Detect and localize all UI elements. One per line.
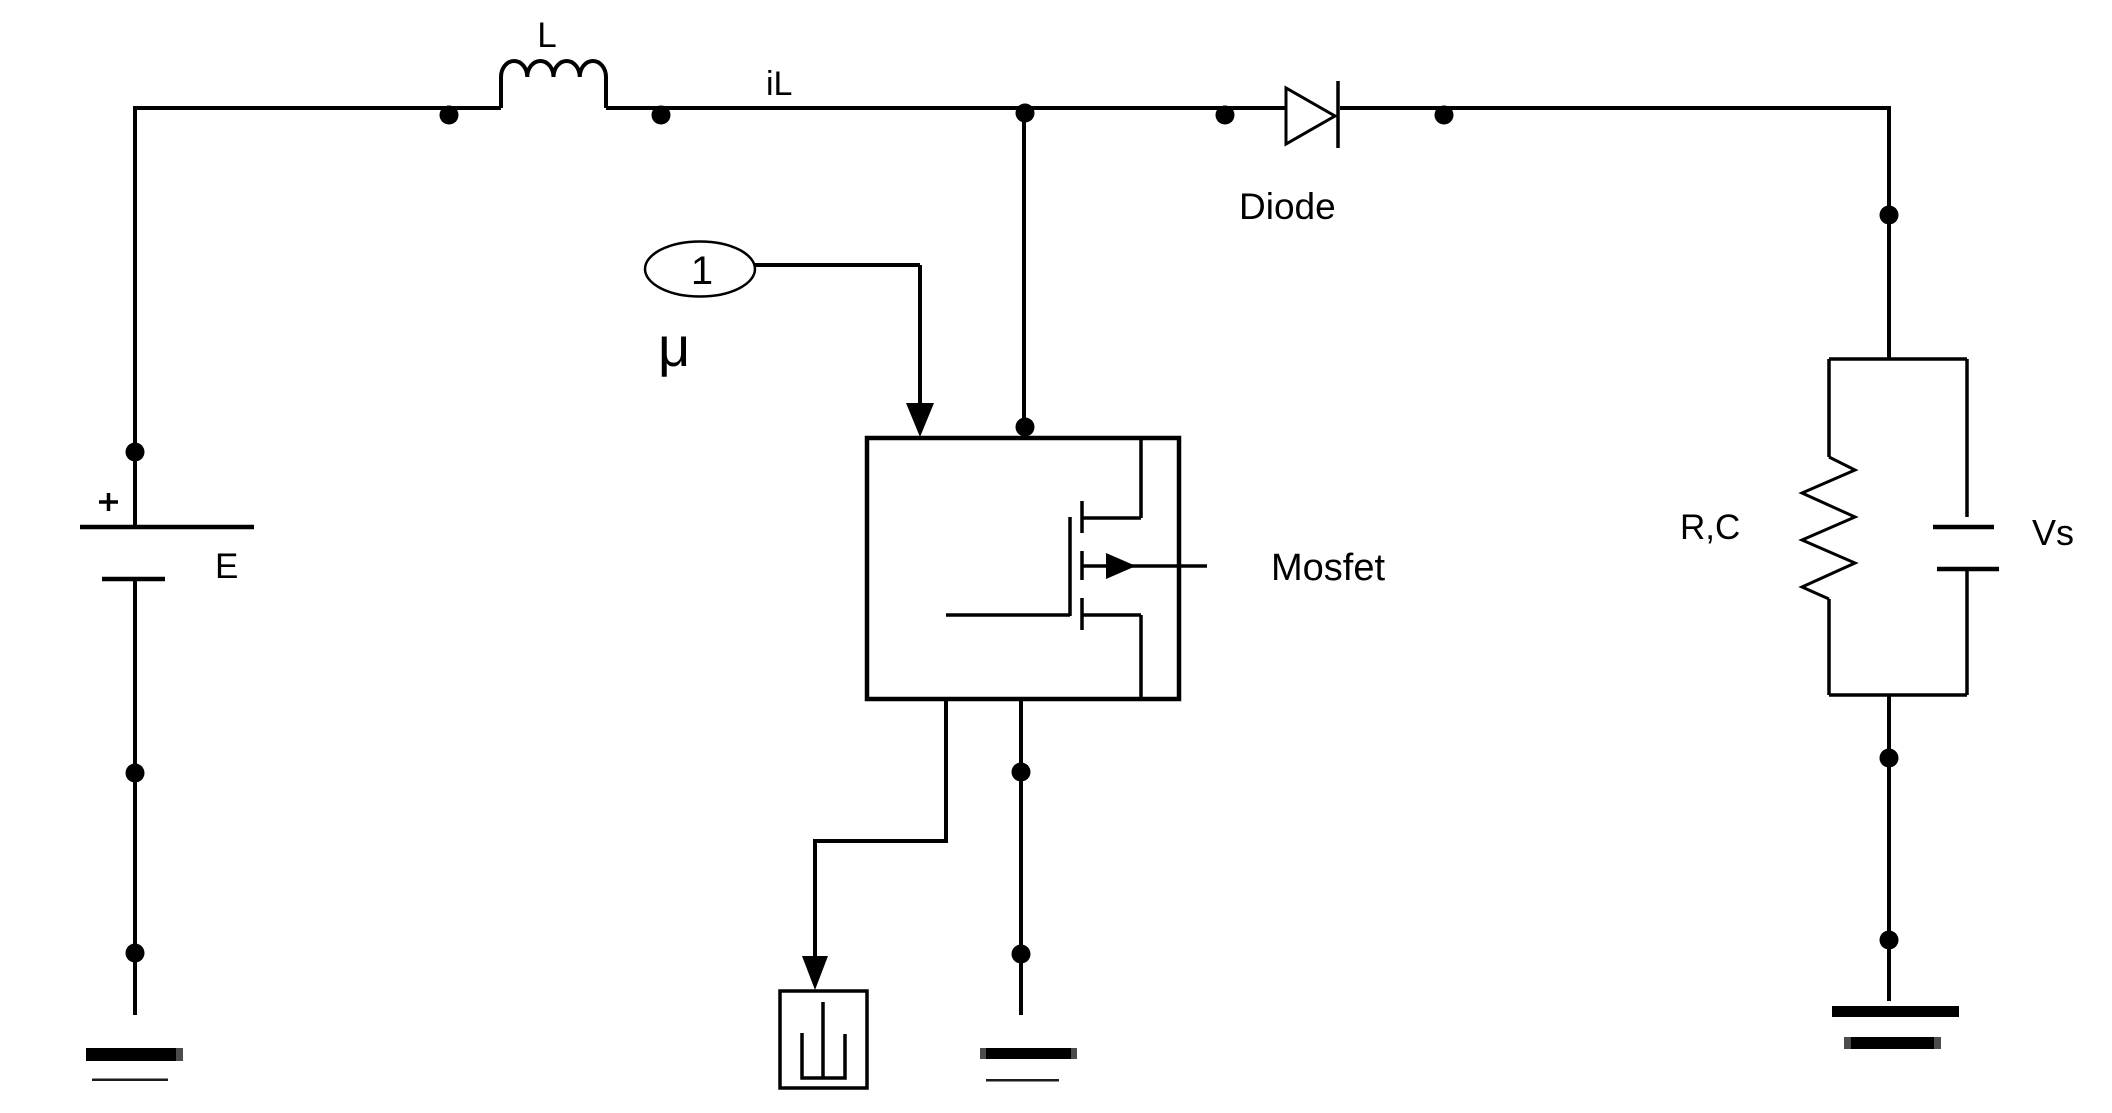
node dot mosfet bottom wire lower xyxy=(1012,945,1031,964)
mosfet gate plate xyxy=(1068,517,1072,616)
arrowhead into pulse block xyxy=(802,956,828,990)
mosfet channel dash top xyxy=(1080,501,1084,533)
node dot top wire 1 xyxy=(440,106,459,125)
capacitor C branch upper lead xyxy=(1965,359,1969,517)
node dot top wire 5 xyxy=(1435,106,1454,125)
ground middle bar xyxy=(980,1048,1077,1059)
wire gate vertical xyxy=(918,265,922,404)
mosfet body arrow xyxy=(1106,553,1136,579)
node dot left wire lower xyxy=(126,944,145,963)
node dot top wire 2 xyxy=(652,106,671,125)
ground left bar grey end xyxy=(176,1048,183,1061)
svg-text:iL: iL xyxy=(766,65,792,103)
capacitor C bottom plate xyxy=(1937,567,1999,572)
arrowhead into mosfet gate xyxy=(906,403,934,437)
wire mosfet bottom vertical xyxy=(1019,701,1023,1015)
pulse icon U shape xyxy=(802,1033,845,1078)
wire top-right horizontal xyxy=(1340,106,1889,110)
svg-text:E: E xyxy=(215,547,238,586)
ground left thin line xyxy=(92,1079,168,1082)
ground middle thin line xyxy=(986,1079,1059,1082)
node dot top wire 4 xyxy=(1216,106,1235,125)
resistor R branch upper lead xyxy=(1827,359,1831,457)
wire port1 to gate horizontal xyxy=(755,263,920,267)
node dot mosfet top xyxy=(1016,418,1035,437)
node dot right wire lower xyxy=(1880,931,1899,950)
resistor R zigzag xyxy=(1802,457,1855,599)
svg-text:R,C: R,C xyxy=(1680,508,1740,547)
RC block bottom edge xyxy=(1829,693,1967,697)
battery E negative plate xyxy=(102,577,165,582)
node dot right wire upper xyxy=(1880,206,1899,225)
wire top-middle horizontal xyxy=(606,106,1286,110)
wire mosfet source to pulse block xyxy=(815,701,946,957)
pulse generator block xyxy=(780,991,867,1088)
mosfet drain lead xyxy=(1082,440,1141,518)
ground middle bar grey ends xyxy=(980,1048,986,1059)
diode D1 triangle xyxy=(1286,88,1335,144)
wire rc bottom vertical xyxy=(1887,695,1891,1001)
wire node to mosfet drain vertical xyxy=(1022,108,1026,436)
wire left vertical lower xyxy=(133,580,137,1015)
RC block top edge xyxy=(1829,357,1967,361)
svg-text:Mosfet: Mosfet xyxy=(1271,547,1385,589)
wire top-left horizontal xyxy=(135,106,501,110)
ground right bar 2 grey ends xyxy=(1844,1037,1851,1049)
mosfet channel dash middle xyxy=(1080,551,1084,580)
node dot left wire upper xyxy=(126,443,145,462)
input port oval 1 xyxy=(645,242,755,297)
battery E positive plate xyxy=(80,525,254,530)
wire left vertical upper xyxy=(133,106,137,526)
mosfet body lead xyxy=(1082,564,1207,568)
resistor R branch lower lead xyxy=(1827,599,1831,695)
mosfet source lead xyxy=(1082,615,1141,697)
node dot top wire 3 (mosfet branch) xyxy=(1016,104,1035,123)
mosfet gate lead xyxy=(946,613,1070,617)
capacitor C top plate xyxy=(1933,525,1994,530)
svg-text:1: 1 xyxy=(691,249,713,293)
ground left bar xyxy=(86,1048,183,1061)
ground right bar 1 xyxy=(1832,1006,1959,1017)
svg-text:L: L xyxy=(537,16,556,55)
svg-text:μ: μ xyxy=(658,315,690,378)
capacitor C branch lower lead xyxy=(1965,571,1969,695)
battery plus sign xyxy=(99,493,118,511)
node dot left wire middle xyxy=(126,764,145,783)
inductor L xyxy=(501,61,606,108)
ground right bar 2 grey end right xyxy=(1934,1037,1941,1049)
mosfet channel dash bottom xyxy=(1080,598,1084,630)
ground right bar 2 xyxy=(1844,1037,1941,1049)
wire right vertical xyxy=(1887,106,1891,359)
pulse icon center line xyxy=(821,1002,825,1078)
diode D1 cathode bar xyxy=(1336,81,1340,148)
node dot right wire middle xyxy=(1880,749,1899,768)
svg-text:Vs: Vs xyxy=(2032,512,2074,553)
mosfet U1 body box xyxy=(867,438,1179,699)
node dot mosfet bottom wire upper xyxy=(1012,763,1031,782)
svg-text:Diode: Diode xyxy=(1239,186,1336,227)
ground middle bar grey end right xyxy=(1071,1048,1077,1059)
